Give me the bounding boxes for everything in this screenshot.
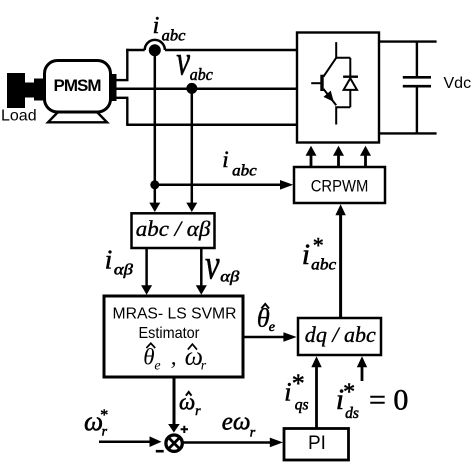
label ids = 0 — [336, 380, 409, 422]
wire phase a to inverter — [126, 49, 297, 52]
wire omega_ref input — [99, 436, 162, 447]
svg-text:r: r — [102, 424, 108, 439]
svg-text:qs: qs — [295, 397, 309, 414]
svg-text:PMSM: PMSM — [54, 76, 102, 95]
motor base — [48, 111, 107, 122]
svg-text:= 0: = 0 — [369, 384, 408, 417]
wire omega_r to summer — [168, 377, 180, 433]
gate arrow 2 — [333, 146, 344, 167]
label iqs — [284, 369, 308, 414]
motor terminal tab — [110, 74, 117, 101]
IGBT emitter arrow — [324, 91, 334, 102]
estimator omega hat — [185, 342, 207, 374]
IGBT bar — [320, 75, 323, 91]
svg-text:r: r — [250, 425, 256, 440]
wire stub phase c — [116, 97, 128, 99]
IGBT collector angled line — [323, 58, 336, 77]
estimator theta hat — [143, 343, 160, 373]
node vabc dot — [186, 83, 197, 94]
abc/alphabeta box — [132, 213, 215, 248]
shaft coupling — [34, 79, 44, 101]
PI box — [284, 429, 349, 461]
gate arrow 3 — [360, 146, 371, 167]
wire stub phase b / vabc line — [116, 87, 297, 90]
svg-text:θ: θ — [143, 345, 154, 370]
wire vertical bus upper — [126, 49, 128, 81]
svg-text:*: * — [100, 407, 108, 424]
current sensor hop arc — [145, 40, 165, 50]
svg-text:v: v — [205, 242, 220, 289]
dc bottom rail — [379, 132, 437, 134]
label omega_r_ref — [84, 406, 108, 439]
junction dot — [150, 180, 159, 189]
wire iabc to CRPWM — [155, 180, 293, 190]
label theta_e hat — [257, 302, 275, 335]
svg-text:i: i — [222, 147, 228, 172]
inverter box — [297, 33, 379, 143]
load block — [7, 73, 25, 108]
svg-text:i: i — [302, 238, 310, 271]
svg-text:r: r — [195, 404, 201, 419]
svg-text:r: r — [201, 359, 207, 374]
svg-text:MRAS- LS SVMR: MRAS- LS SVMR — [113, 306, 237, 323]
svg-text:i: i — [284, 378, 291, 407]
wire vertical bus lower — [126, 98, 128, 125]
svg-text:αβ: αβ — [114, 261, 133, 278]
svg-text:Load: Load — [1, 108, 37, 125]
plus sign — [181, 426, 188, 433]
svg-text:i: i — [153, 13, 160, 39]
svg-text:ds: ds — [345, 405, 359, 422]
svg-text:*: * — [292, 369, 305, 398]
svg-text:i: i — [105, 244, 113, 274]
svg-text:abc: abc — [232, 162, 257, 179]
label i_abc middle — [222, 147, 257, 180]
motor PMSM body — [45, 61, 111, 113]
node iabc dot — [149, 44, 161, 56]
wire phase c to inverter — [126, 124, 297, 127]
wire i_alphabeta to estimator — [141, 248, 152, 295]
diode cathode lead — [349, 58, 351, 77]
wire iabc tap down to abc/alphabeta — [149, 50, 160, 212]
diode triangle — [344, 78, 357, 90]
svg-text:abc: abc — [190, 65, 213, 84]
label i_alphabeta — [105, 244, 133, 278]
svg-text:PI: PI — [308, 433, 326, 454]
svg-text:Vdc: Vdc — [444, 75, 472, 92]
label iabc_ref — [302, 233, 337, 274]
IGBT gate lead — [311, 82, 322, 84]
wire vabc tap down to abc/alphabeta — [186, 88, 197, 212]
svg-text:*: * — [313, 233, 324, 258]
label v_alphabeta — [205, 242, 240, 289]
svg-text:e: e — [154, 359, 160, 374]
svg-text:Estimator: Estimator — [139, 325, 201, 342]
label e omega_r — [222, 408, 256, 440]
svg-text:CRPWM: CRPWM — [311, 176, 369, 195]
svg-text:,: , — [171, 345, 177, 370]
svg-text:eω: eω — [222, 408, 251, 435]
CRPWM box — [294, 167, 385, 203]
wire iabc_ref to CRPWM — [335, 204, 345, 318]
capacitor Vdc — [403, 42, 431, 134]
diode cathode bar — [343, 75, 358, 77]
dq/abc box — [298, 318, 381, 355]
diode anode lead — [349, 90, 351, 107]
minus sign — [156, 450, 164, 453]
wire iqs to dq/abc — [311, 356, 321, 428]
svg-text:v: v — [176, 37, 190, 84]
svg-text:e: e — [269, 320, 275, 335]
svg-text:abc / αβ: abc / αβ — [136, 216, 211, 241]
label v_abc — [176, 37, 213, 84]
IGBT emitter angled line — [323, 89, 336, 105]
IGBT emitter lead — [336, 107, 350, 124]
label i_abc top — [153, 13, 186, 45]
svg-text:dq / abc: dq / abc — [305, 322, 376, 347]
summing junction — [166, 435, 182, 451]
wire v_alphabeta to estimator — [196, 248, 207, 295]
label omega_r hat — [179, 390, 201, 420]
IGBT collector lead — [336, 42, 350, 58]
gate arrow 1 — [306, 146, 317, 167]
estimator box — [104, 296, 243, 377]
svg-text:abc: abc — [311, 257, 336, 274]
wire e omega to PI — [184, 438, 284, 448]
motor shaft — [24, 83, 35, 98]
svg-text:αβ: αβ — [220, 268, 239, 285]
wire stub phase a — [116, 79, 128, 81]
wire theta_e to dq/abc — [244, 332, 297, 342]
wire ids to dq/abc — [357, 356, 367, 381]
svg-text:*: * — [343, 380, 355, 406]
dc top rail — [379, 40, 437, 42]
